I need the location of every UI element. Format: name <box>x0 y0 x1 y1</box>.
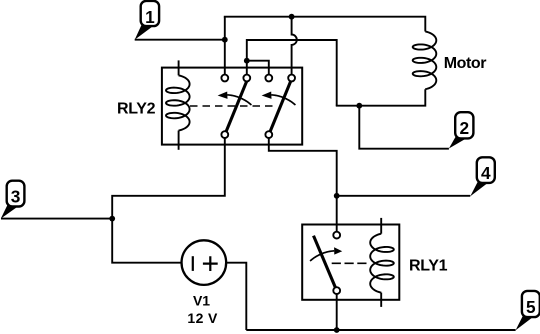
wire RLY2 sw1 common to V1 minus <box>112 138 225 263</box>
voltage source V1 circle <box>182 240 227 285</box>
svg-text:V1: V1 <box>193 292 210 308</box>
svg-text:5: 5 <box>526 297 536 317</box>
svg-text:2: 2 <box>459 118 469 138</box>
junction motor bottom/flag2 <box>356 103 362 109</box>
relay RLY1 box <box>302 225 399 300</box>
relay RLY2 arrow 2 <box>262 92 296 106</box>
junction bottom rail/RLY1 <box>334 327 340 333</box>
svg-text:12 V: 12 V <box>187 310 218 326</box>
relay RLY1 coil <box>370 218 394 307</box>
wire RLY2 sw2 common to RLY1 <box>269 138 337 232</box>
relay RLY2 terminal sw2 common <box>265 131 272 138</box>
wire RLY2 pin4 lead with hop <box>292 17 297 75</box>
relay RLY2 dashed actuation line <box>190 105 273 107</box>
svg-text:3: 3 <box>11 187 21 207</box>
relay RLY2 terminal 2 <box>243 75 250 82</box>
junction top rail/pin4 <box>289 14 295 20</box>
junction flag4 <box>334 193 340 199</box>
relay RLY2 terminal 1 <box>221 75 228 82</box>
V1 minus terminal bar <box>192 256 194 271</box>
relay RLY2 coil <box>166 60 190 149</box>
wire flag4 <box>337 195 471 197</box>
relay RLY1 terminal top <box>333 232 340 239</box>
relay RLY2 terminal sw1 common <box>221 131 228 138</box>
relay RLY2 switch blade 2 <box>270 81 291 131</box>
node flag 1 <box>135 1 159 40</box>
svg-text:RLY2: RLY2 <box>117 101 156 118</box>
svg-text:Motor: Motor <box>444 55 487 72</box>
svg-text:1: 1 <box>145 7 155 27</box>
svg-text:4: 4 <box>481 163 491 183</box>
V1 plus sign <box>203 256 218 271</box>
relay RLY2 box <box>162 68 302 145</box>
node flag 2 <box>449 112 474 148</box>
relay RLY1 arrow <box>310 247 342 261</box>
wire motor bottom <box>336 89 426 106</box>
wire node up to top rail <box>224 17 226 40</box>
relay RLY2 arrow 1 <box>218 92 252 106</box>
wire flag1 to node <box>135 39 225 41</box>
wire node B to motor bottom <box>247 40 337 106</box>
relay RLY1 terminal common <box>333 287 340 294</box>
wire RLY1 common to bottom rail <box>336 294 338 330</box>
svg-text:RLY1: RLY1 <box>409 257 448 274</box>
node flag 3 <box>1 181 25 219</box>
relay RLY2 switch blade 1 <box>226 81 247 131</box>
junction flag3 <box>109 216 115 222</box>
relay RLY2 terminal 3 <box>265 75 272 82</box>
node flag 5 <box>516 291 540 330</box>
motor coil L1 <box>413 32 437 90</box>
relay RLY2 terminal 4 <box>288 75 295 82</box>
wire motor node to flag2 <box>359 106 449 149</box>
wire flag3 <box>1 218 112 220</box>
relay RLY1 switch blade <box>314 236 336 288</box>
junction pin2 bracket <box>244 58 250 64</box>
wire top rail to motor <box>224 17 425 32</box>
wire V1 plus to bottom rail <box>226 263 246 330</box>
node flag 4 <box>470 157 495 196</box>
wire bottom rail to flag5 <box>246 329 515 331</box>
wire RLY2 pin2-pin3 bracket <box>247 61 269 75</box>
junction flag1/pin1 <box>222 37 228 43</box>
wire RLY2 pin1 lead <box>224 40 226 75</box>
relay RLY1 dashed actuation line <box>332 262 368 264</box>
